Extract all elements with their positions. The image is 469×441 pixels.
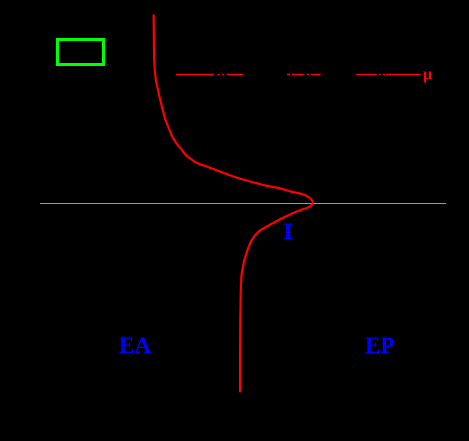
svg-text:μ: μ xyxy=(423,66,432,83)
gray baseline xyxy=(40,203,446,205)
svg-text:EA: EA xyxy=(119,333,151,358)
green legend box xyxy=(58,40,104,65)
svg-text:I: I xyxy=(283,219,294,244)
red curve xyxy=(154,15,313,393)
red dash-dot chemical potential line mu xyxy=(176,74,421,76)
svg-text:EP: EP xyxy=(365,333,394,358)
